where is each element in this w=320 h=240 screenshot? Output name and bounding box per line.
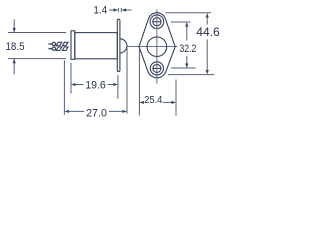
dimension 19.6 extension lines (71, 63, 118, 99)
dimension 18.5 (6, 19, 25, 74)
dimension 1.4 (93, 5, 131, 17)
bottom screw hole (150, 62, 163, 75)
catch body rim (71, 31, 75, 60)
horizontal centreline (127, 45, 177, 47)
plate top extension line (166, 12, 212, 14)
dimension 32.2 (179, 22, 196, 68)
vertical centreline (156, 9, 158, 83)
dimension 25.4 extension lines (139, 48, 176, 116)
dimension 27.0 extension lines (64, 48, 127, 115)
dimension 19.6 (71, 80, 118, 92)
centre hole (147, 37, 167, 57)
top screw extension line (171, 21, 191, 23)
top screw hole (150, 15, 164, 29)
bottom screw extension line (171, 67, 196, 69)
svg-text:44.6: 44.6 (196, 25, 220, 39)
spring detail lower row (48, 47, 68, 50)
spring ball (120, 39, 127, 53)
svg-text:19.6: 19.6 (85, 80, 106, 92)
plate bottom extension line (168, 74, 215, 76)
svg-text:25.4: 25.4 (144, 95, 163, 106)
catch cylindrical body (75, 33, 118, 59)
svg-text:1.4: 1.4 (93, 5, 107, 17)
catch flange edge-on (117, 19, 120, 71)
svg-text:32.2: 32.2 (179, 43, 196, 55)
dimension 25.4 (139, 95, 176, 106)
svg-text:18.5: 18.5 (6, 41, 25, 53)
strike plate outline (139, 13, 175, 78)
dimension 44.6 (196, 13, 220, 75)
dimension 18.5 extension lines (8, 33, 66, 59)
dimension 27.0 (64, 108, 127, 120)
svg-text:27.0: 27.0 (86, 108, 107, 120)
spring detail upper row (48, 42, 68, 45)
